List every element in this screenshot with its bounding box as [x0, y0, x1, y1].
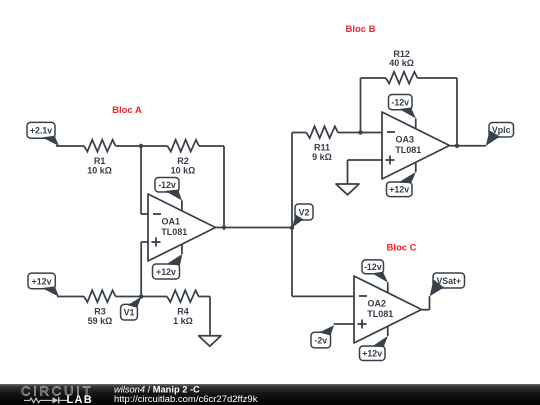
ground — [199, 336, 221, 347]
resistor R2 10 k&#937; — [167, 140, 199, 176]
node V2 — [290, 204, 313, 230]
wire (OA2 + input) — [334, 323, 354, 325]
op-amp OA3 TL081 — [382, 112, 450, 179]
svg-text:+12v: +12v — [362, 349, 382, 359]
wire (OA1 output) — [216, 227, 293, 229]
wire (OA3 + input to ground) — [348, 160, 383, 184]
svg-text:+12v: +12v — [156, 267, 176, 277]
wire — [141, 296, 167, 298]
ground — [336, 184, 359, 195]
op-amp OA2 TL081 — [354, 276, 422, 343]
svg-text:9 kΩ: 9 kΩ — [312, 152, 332, 162]
svg-text:R11: R11 — [314, 143, 330, 153]
power pin stub — [415, 118, 417, 128]
svg-text:10 kΩ: 10 kΩ — [171, 166, 196, 176]
svg-text:R4: R4 — [177, 307, 189, 317]
svg-text:wilson4 / Manip 2 -C: wilson4 / Manip 2 -C — [114, 385, 200, 395]
svg-text:R3: R3 — [94, 307, 106, 317]
wire — [417, 78, 457, 146]
wire — [292, 132, 306, 134]
svg-text:-12v: -12v — [364, 262, 382, 272]
node label VSat+ — [430, 273, 465, 296]
power pin stub — [387, 282, 389, 292]
node junction — [358, 130, 362, 134]
wire — [141, 242, 148, 297]
node label -2v — [311, 325, 334, 348]
svg-text:-12v: -12v — [158, 180, 176, 190]
power label +12v (OA2) — [360, 336, 388, 361]
svg-text:-12v: -12v — [391, 98, 409, 108]
node junction — [455, 144, 459, 148]
wire — [56, 145, 84, 147]
svg-text:OA2: OA2 — [367, 299, 386, 309]
wire — [199, 297, 210, 336]
resistor R12 40 k&#937; — [386, 49, 418, 84]
power label -12v (OA3) — [389, 95, 416, 119]
svg-text:+2.1v: +2.1v — [30, 126, 52, 136]
node label Vplc — [486, 123, 514, 146]
wire (to OA2 - input) — [292, 295, 354, 297]
resistor R4 1 k&#937; — [167, 290, 199, 326]
wire — [199, 146, 224, 228]
resistor R3 59 k&#937; — [84, 290, 116, 326]
node junction — [139, 144, 143, 148]
node V1 — [121, 294, 144, 320]
svg-text:R2: R2 — [177, 156, 189, 166]
svg-text:OA1: OA1 — [161, 217, 180, 227]
svg-text:40 kΩ: 40 kΩ — [389, 58, 414, 68]
resistor R11 9 k&#937; — [306, 126, 338, 162]
power label +12v (OA3) — [387, 172, 416, 197]
svg-text:V2: V2 — [299, 207, 310, 217]
svg-text:http://circuitlab.com/c6cr27d2: http://circuitlab.com/c6cr27d2ffz9k — [114, 394, 258, 405]
node junction — [222, 225, 226, 229]
power label -12v (OA2) — [362, 260, 388, 283]
wire (feedback left) — [360, 78, 362, 133]
wire — [116, 296, 142, 298]
svg-text:LAB: LAB — [67, 394, 94, 405]
power pin stub — [181, 200, 183, 210]
wire — [141, 145, 167, 147]
wire — [338, 132, 382, 134]
node label +2.1v — [27, 122, 59, 146]
svg-text:59 kΩ: 59 kΩ — [88, 316, 113, 326]
op-amp OA1 TL081 — [148, 194, 216, 261]
svg-text:1 kΩ: 1 kΩ — [173, 316, 193, 326]
wire — [141, 146, 148, 214]
wire — [57, 296, 84, 298]
wire (V2 vertical) — [291, 133, 293, 297]
wire (OA3 output) — [450, 145, 487, 147]
svg-text:TL081: TL081 — [161, 227, 187, 237]
power pin stub — [415, 162, 417, 172]
svg-text:R1: R1 — [94, 156, 106, 166]
resistor R1 10 k&#937; — [84, 140, 116, 176]
footer bar — [0, 384, 540, 405]
svg-text:VSat+: VSat+ — [436, 276, 461, 286]
svg-text:+12v: +12v — [389, 185, 409, 195]
power label -12v (OA1) — [155, 178, 182, 201]
wire — [361, 77, 386, 79]
svg-text:Bloc B: Bloc B — [345, 24, 375, 35]
wire — [116, 145, 141, 147]
svg-text:OA3: OA3 — [395, 135, 414, 145]
logo resistor-diode wire — [24, 397, 67, 403]
svg-text:10 kΩ: 10 kΩ — [87, 166, 112, 176]
svg-text:V1: V1 — [124, 308, 135, 318]
svg-text:+12v: +12v — [32, 276, 52, 286]
power label +12v (OA1) — [153, 254, 183, 279]
svg-text:Bloc A: Bloc A — [112, 105, 142, 116]
wire (OA2 output) — [422, 296, 430, 310]
svg-text:TL081: TL081 — [395, 145, 421, 155]
power pin stub — [181, 244, 183, 254]
power pin stub — [387, 326, 389, 336]
node label +12v (source) — [28, 273, 59, 297]
svg-text:TL081: TL081 — [367, 309, 393, 319]
svg-text:Bloc C: Bloc C — [386, 243, 416, 254]
svg-text:-2v: -2v — [314, 336, 327, 346]
